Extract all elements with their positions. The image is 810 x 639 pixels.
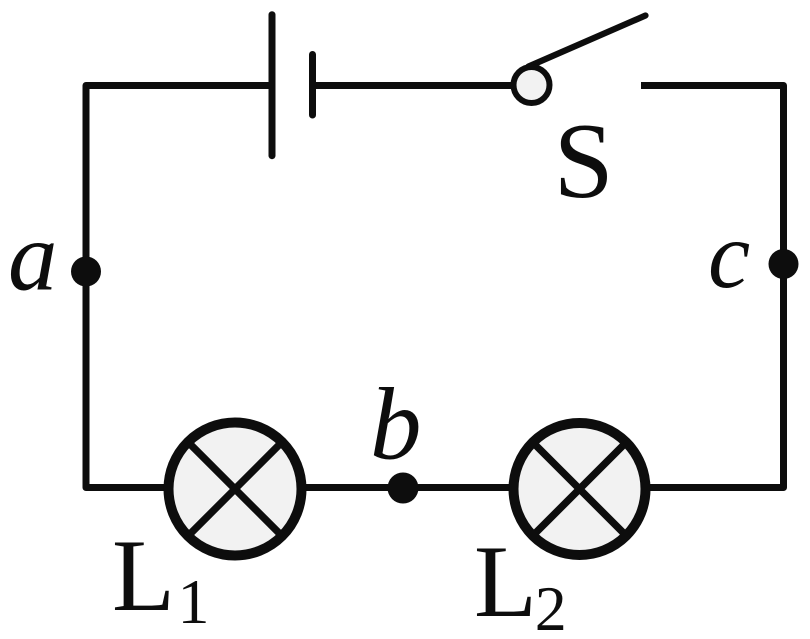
wire: lamp L1 to lamp L2 through node b	[305, 484, 510, 491]
lamp L1	[169, 423, 302, 556]
switch S pivot circle	[514, 67, 550, 103]
node c dot	[769, 249, 799, 279]
wire: battery short plate to switch	[315, 82, 512, 89]
svg-text:b: b	[370, 368, 422, 482]
svg-text:2: 2	[535, 573, 567, 639]
svg-text:L: L	[474, 525, 537, 639]
battery short plate	[309, 55, 316, 116]
battery long plate	[269, 15, 276, 156]
svg-text:L: L	[112, 519, 175, 633]
lamp L2	[514, 423, 646, 555]
wire: top-left corner, left side, bottom-left corner to lamp L1	[86, 86, 269, 488]
svg-text:c: c	[708, 202, 750, 308]
wire: switch right stub, top-right corner, right side, bottom-right corner to lamp L2	[641, 86, 784, 488]
svg-text:1: 1	[178, 566, 210, 637]
node a dot	[71, 257, 101, 287]
svg-text:a: a	[8, 202, 58, 311]
node b dot	[388, 473, 419, 504]
switch S lever	[529, 16, 646, 67]
svg-text:S: S	[554, 102, 614, 221]
